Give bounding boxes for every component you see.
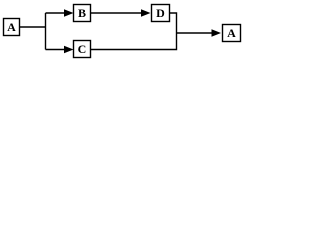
wire vertical split bus (45, 13, 47, 50)
svg-text:A: A (227, 26, 236, 40)
wire to C with arrowhead (46, 46, 74, 54)
node D (152, 5, 170, 22)
node A (right box) (223, 25, 241, 42)
svg-text:D: D (156, 6, 165, 20)
svg-text:B: B (78, 6, 86, 20)
wire from A to split junction (20, 26, 46, 28)
wire to B with arrowhead (46, 9, 74, 17)
wire from C up to merge junction (91, 33, 177, 50)
node C (74, 41, 91, 58)
svg-text:C: C (78, 42, 87, 56)
wire merge to right A with arrowhead (177, 29, 222, 37)
svg-text:A: A (7, 20, 16, 34)
node A (left box) (4, 19, 20, 36)
wire from D down to merge junction (170, 13, 177, 33)
wire B to D with arrowhead (91, 9, 151, 17)
node B (74, 5, 91, 22)
